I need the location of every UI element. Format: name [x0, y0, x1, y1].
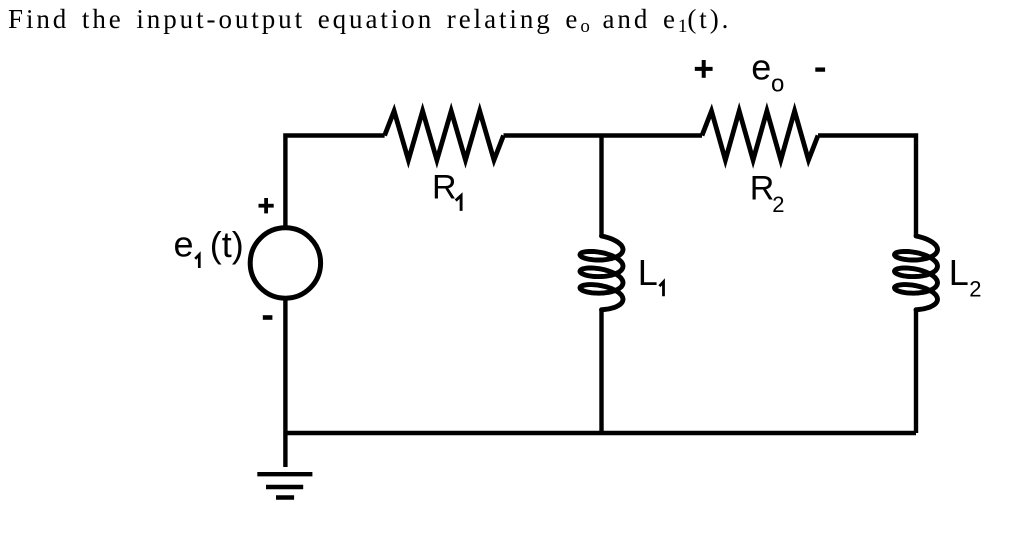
wire: L2 bottom down to bottom-right corner: [914, 310, 918, 433]
wire: L1 bottom down to bottom rail: [599, 310, 603, 433]
svg-text:o: o: [771, 71, 784, 98]
plus sign at source top: [259, 204, 274, 208]
wire: bottom rail: [285, 431, 916, 435]
resistor R2: [702, 111, 818, 160]
minus sign of eo: [815, 67, 825, 71]
wire: node A down to L1 top: [599, 136, 603, 237]
wire: R2 right to top-right corner, down to L2 top: [818, 136, 916, 237]
svg-text:L: L: [638, 252, 658, 293]
ground bar 1: [257, 472, 312, 476]
svg-text:L: L: [949, 252, 969, 293]
svg-text:(t): (t): [210, 224, 244, 265]
wire: source top up to top rail, over to R1: [285, 136, 384, 228]
wire: R1 right to node A to R2 left: [504, 133, 703, 137]
voltage source e1(t) circle: [250, 228, 320, 298]
title: problem statement: [8, 4, 731, 38]
inductor L1 coil: [580, 236, 623, 310]
plus sign of eo: [695, 67, 713, 71]
svg-text:2: 2: [969, 276, 981, 301]
minus sign at source bottom: [263, 315, 273, 320]
ground bar 2: [266, 485, 303, 489]
resistor R1: [385, 111, 504, 160]
svg-text:R: R: [432, 169, 457, 207]
svg-text:e: e: [751, 47, 771, 88]
svg-text:e: e: [174, 223, 194, 264]
ground bar 3: [276, 495, 294, 499]
wire: source bottom down to ground stem: [283, 299, 287, 467]
inductor L2 coil: [895, 236, 938, 310]
svg-text:R: R: [750, 169, 775, 207]
svg-text:2: 2: [772, 192, 784, 217]
